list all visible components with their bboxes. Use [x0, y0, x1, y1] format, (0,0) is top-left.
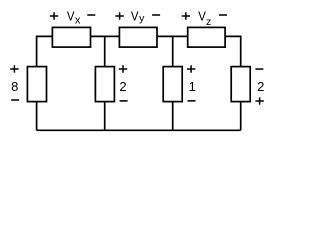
label + Vy − (above element Vy) [115, 9, 160, 25]
wire bottom rail [37, 129, 241, 131]
element Vy (series box 2) [119, 27, 157, 47]
wire bottom: element A to bottom rail [36, 101, 38, 130]
wire top-left: node 1 riser from element A up and across to Vx box [37, 36, 53, 67]
wire: element C to bottom rail [172, 101, 174, 130]
svg-text:V: V [131, 9, 139, 24]
svg-text:x: x [75, 15, 81, 27]
svg-text:8: 8 [11, 79, 18, 94]
svg-text:y: y [139, 13, 145, 25]
wire: element D to bottom rail [240, 101, 242, 130]
element Vz (series box 3) [188, 27, 225, 47]
wire riser node 3: top wire junction down to element C [172, 36, 174, 67]
wire riser node 2: top wire junction down to element B [104, 36, 106, 67]
wire: element B to bottom rail [104, 101, 106, 130]
svg-text:V: V [198, 9, 206, 24]
element 1V (branch box C) [163, 67, 182, 102]
label + 1 − (polarity and value, right of element C) [187, 65, 196, 101]
label + 8 − (polarity and value, left of element A) [10, 65, 19, 100]
element 8V (left branch box A) [27, 67, 46, 102]
element 2V (right branch box D) [231, 67, 250, 102]
label − 2 + (polarity and value, right of element D) [255, 69, 264, 105]
label + Vx − (above element Vx) [50, 9, 95, 27]
svg-text:2: 2 [257, 79, 264, 94]
svg-text:2: 2 [119, 79, 126, 94]
wire top: Vx box to Vy box [91, 35, 120, 37]
svg-text:1: 1 [189, 79, 196, 94]
svg-text:V: V [67, 9, 75, 24]
wire top: Vy box to Vz box [157, 35, 188, 37]
element Vx (series box 1) [52, 27, 90, 47]
svg-text:z: z [206, 16, 211, 28]
wire top-right: Vz box right to element D top [225, 36, 241, 67]
label + Vz − (above element Vz) [182, 9, 227, 28]
element 2V (branch box B) [95, 67, 114, 102]
label + 2 − (polarity and value, right of element B) [119, 65, 128, 101]
